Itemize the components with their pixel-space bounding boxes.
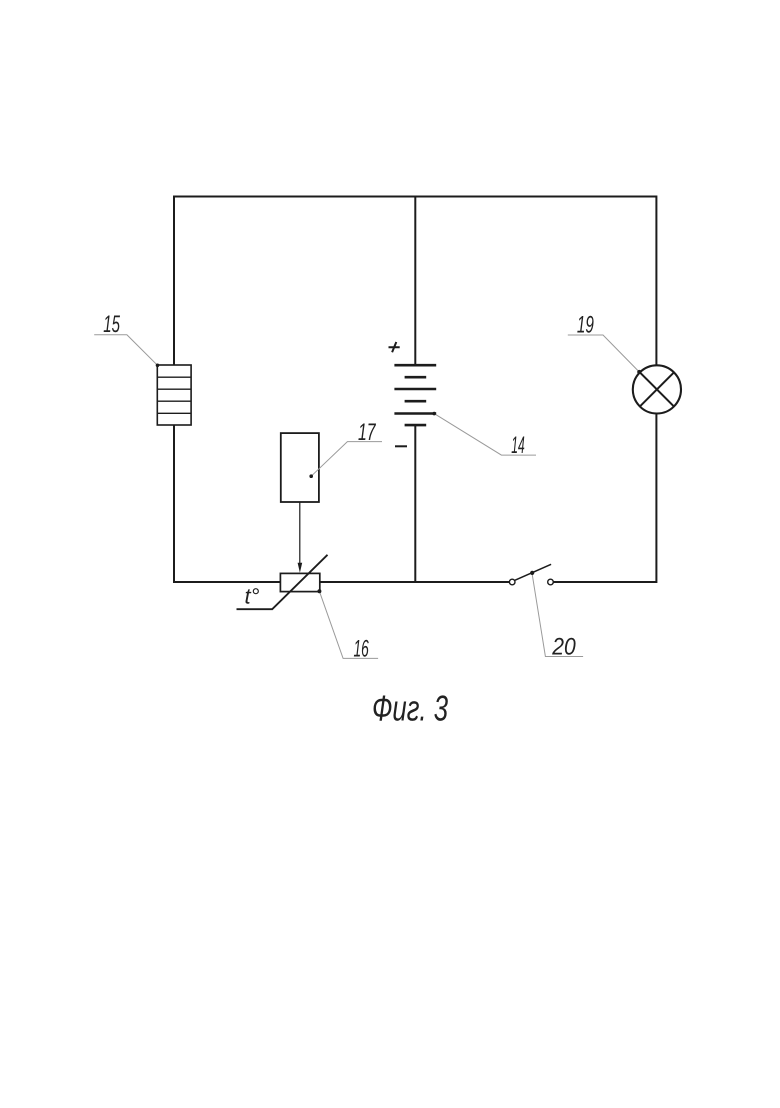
- battery 14 long plate 3: [394, 412, 436, 415]
- svg-text:Фиг. 3: Фиг. 3: [372, 688, 448, 729]
- arrowhead: [298, 563, 303, 573]
- svg-text:20: 20: [551, 634, 576, 661]
- wire right vertical lower: [655, 414, 657, 583]
- svg-text:16: 16: [354, 636, 370, 663]
- lamp 19 cross line 2: [640, 372, 674, 406]
- wire middle vertical lower (battery - to bottom): [414, 425, 416, 583]
- thermistor 16 tail: [237, 608, 273, 610]
- leader 14: [434, 414, 536, 456]
- svg-text:19: 19: [577, 311, 594, 338]
- leader 15 underline: [94, 335, 157, 366]
- thermistor 16 body: [280, 573, 319, 591]
- svg-text:17: 17: [358, 419, 377, 446]
- wire bottom horizontal middle: [319, 581, 510, 583]
- leader 17: [311, 442, 382, 477]
- thermistor 16 diagonal stroke: [272, 555, 327, 609]
- leader 16 dot: [317, 589, 321, 593]
- battery 14 short plate 3: [405, 424, 427, 427]
- heater 15 segment line 1: [157, 376, 191, 378]
- lamp 19 cross line 1: [640, 372, 674, 406]
- leader 17 dot: [309, 474, 313, 478]
- wire bottom horizontal left: [173, 581, 281, 583]
- svg-text:t°: t°: [245, 584, 260, 609]
- switch 20 blade: [515, 564, 551, 580]
- battery 14 minus sign: [395, 445, 407, 447]
- switch 20 left contact: [509, 579, 515, 585]
- svg-text:14: 14: [511, 432, 525, 459]
- leader 15 dot: [156, 364, 160, 368]
- battery 14 long plate 2: [394, 388, 436, 391]
- wire right vertical upper: [655, 196, 657, 366]
- wire left vertical upper: [173, 196, 175, 366]
- heater 15 segment line 3: [157, 400, 191, 402]
- battery 14 short plate 2: [405, 400, 427, 403]
- heater 15 segment line 4: [157, 412, 191, 414]
- wire bottom horizontal right: [553, 581, 656, 583]
- leader 16: [319, 591, 378, 658]
- svg-text:15: 15: [103, 311, 120, 338]
- switch 20 right contact: [548, 579, 554, 585]
- leader 20: [532, 572, 583, 656]
- battery 14 plus sign: [389, 342, 400, 352]
- heater element 15 body: [157, 365, 191, 425]
- leader 14 dot: [432, 412, 436, 416]
- leader 20 dot: [530, 571, 534, 575]
- battery 14 short plate 1: [405, 376, 427, 379]
- leader 19 dot: [637, 370, 641, 374]
- heater 15 segment line 2: [157, 388, 191, 390]
- wire top horizontal: [174, 196, 657, 198]
- arrow from block 17 to thermistor 16: [299, 502, 301, 564]
- leader 19: [568, 335, 640, 372]
- control block 17 body: [281, 433, 319, 502]
- battery 14 long plate 1: [394, 364, 436, 367]
- wire left vertical lower: [173, 425, 175, 583]
- wire middle vertical upper (to battery +): [414, 196, 416, 366]
- lamp 19 circle: [633, 365, 681, 413]
